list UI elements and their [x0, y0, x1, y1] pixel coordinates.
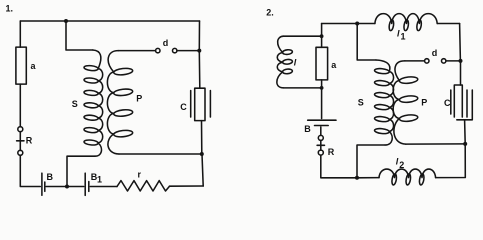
wire: bottom wire r to bottom-right corner: [170, 185, 204, 187]
wire: P2 bottom lead to right wire: [406, 143, 465, 145]
svg-text:R: R: [328, 147, 335, 157]
svg-text:1: 1: [97, 175, 102, 185]
wire: S1 top lead: [66, 21, 93, 50]
junction node P1-bottom-right: [200, 152, 204, 156]
resistor r circuit1: [117, 181, 170, 191]
wire: L2 to bottom-right corner circuit2: [436, 144, 466, 178]
junction node l-top: [320, 34, 324, 38]
wire: circuit2 left vertical top: [321, 24, 323, 48]
key R circuit1: [18, 127, 23, 132]
svg-text:B: B: [304, 124, 311, 134]
inductor L1 circuit2: [375, 14, 437, 24]
inductor P1 (primary coil): [107, 51, 119, 154]
svg-text:1.: 1.: [6, 4, 14, 14]
wire: coil l bottom lead: [283, 87, 321, 89]
wire: box a bottom to battery: [321, 80, 323, 119]
wire: left wire below box a: [19, 84, 21, 127]
junction node l-bottom: [320, 86, 324, 90]
wire: key d to right wire circuit2: [446, 60, 460, 62]
key d circuit2: [425, 59, 429, 63]
svg-text:l: l: [294, 57, 297, 67]
wire: coil l top lead: [283, 35, 321, 37]
svg-text:C: C: [444, 98, 451, 108]
wire: bottom wire junction to B1: [67, 186, 84, 188]
inductor l circuit2: [277, 36, 284, 88]
wire: circuit2 right wire top: [459, 24, 462, 61]
wire: S2 bottom lead: [357, 145, 385, 178]
wire: battery to key R circuit2: [320, 127, 322, 135]
battery B circuit1: [41, 173, 43, 195]
wire: P1 bottom lead to right wire: [119, 153, 202, 155]
resistor a (box) circuit1: [16, 47, 26, 84]
resistor a (box) circuit2: [316, 47, 328, 80]
key R circuit2: [318, 135, 323, 140]
wire: circuit1 left wire upper: [19, 21, 21, 47]
svg-text:a: a: [31, 61, 37, 71]
junction node d-right circuit2: [459, 59, 463, 63]
svg-text:2.: 2.: [266, 7, 274, 17]
svg-text:P: P: [136, 94, 142, 104]
inductor S1 (secondary coil): [93, 50, 103, 156]
wire: P2 top lead to key d: [405, 60, 424, 62]
wire: left wire lower + bottom-left: [20, 155, 40, 186]
svg-text:C: C: [180, 102, 187, 112]
battery B1 circuit1: [84, 173, 86, 195]
junction node S1-bottom: [65, 185, 69, 189]
svg-text:2: 2: [399, 160, 404, 170]
wire: S2 top lead: [357, 24, 376, 61]
wire: circuit1 top wire: [20, 20, 199, 22]
wire: bottom wire B1 to resistor r: [90, 186, 117, 188]
capacitor C circuit1 (jar): [195, 88, 205, 120]
inductor L2 circuit2: [379, 169, 436, 178]
junction node S2-bottom: [355, 176, 359, 180]
svg-text:a: a: [331, 60, 337, 70]
key d circuit1: [156, 48, 160, 52]
wire: circuit1 right wire: [198, 21, 200, 51]
wire: capacitor bottom lead: [464, 120, 467, 144]
wire: bottom wire to L2: [357, 177, 379, 179]
wire: R to bottom-left corner circuit2: [321, 155, 357, 178]
svg-text:d: d: [163, 38, 169, 48]
svg-text:P: P: [421, 98, 427, 108]
battery B circuit2: [308, 119, 336, 121]
junction node P2-bottom-right: [463, 142, 467, 146]
capacitor C circuit2 (jar): [454, 85, 462, 117]
wire: P1 top lead to key d: [119, 50, 156, 52]
junction node d-right circuit1: [197, 49, 201, 53]
inductor S2 circuit2: [376, 60, 394, 145]
svg-text:r: r: [138, 170, 142, 180]
svg-text:S: S: [358, 98, 364, 108]
junction node S2-top: [355, 22, 359, 26]
inductor P2 circuit2: [393, 61, 406, 144]
svg-text:d: d: [432, 48, 438, 58]
wire: right wire to capacitor: [460, 61, 462, 85]
wire: S1 bottom lead: [67, 156, 95, 186]
junction node S1-top: [64, 19, 68, 23]
wire: circuit2 top wire left part: [322, 23, 375, 25]
wire: key d to right wire: [177, 50, 199, 52]
svg-text:R: R: [26, 136, 33, 146]
wire: circuit2 top wire right part: [437, 23, 459, 25]
svg-text:S: S: [72, 99, 78, 109]
svg-text:1: 1: [401, 32, 406, 42]
wire: bottom wire B to junction: [46, 186, 67, 188]
svg-text:B: B: [47, 172, 54, 182]
